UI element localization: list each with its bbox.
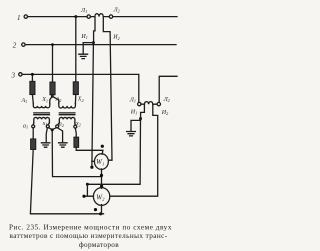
- wire a2 to common junction: [53, 128, 57, 130]
- wire VT2 a2 lead: [58, 123, 60, 125]
- svg-text:W2: W2: [96, 193, 105, 201]
- fuse Pr1 wire from line 3: [31, 74, 33, 81]
- VT1 core: [34, 113, 50, 115]
- wire x1 earth stub: [46, 128, 47, 143]
- svg-text:И1: И1: [80, 34, 87, 40]
- svg-text:Л1: Л1: [80, 8, 87, 14]
- junction on line 2 feeding fuse Pr2: [51, 43, 54, 46]
- wire VT1 a1 lead: [32, 123, 35, 125]
- VT2 core: [59, 113, 75, 115]
- voltage transformer VT2 primary winding: [59, 103, 76, 108]
- polarity dot at W2 bottom terminal: [94, 208, 97, 211]
- terminal a2: [56, 125, 59, 128]
- svg-text:х1: х1: [42, 121, 48, 127]
- fuse Pr2: [50, 82, 55, 95]
- wire W2 left stub: [84, 184, 94, 196]
- voltage transformer VT1 primary winding: [33, 103, 50, 107]
- svg-text:Х2: Х2: [77, 97, 84, 103]
- svg-text:Х1: Х1: [41, 97, 48, 103]
- svg-text:И2: И2: [161, 110, 168, 116]
- fuse Pr1: [30, 81, 35, 94]
- svg-text:2: 2: [13, 42, 17, 50]
- current transformer CT1 primary winding: [95, 14, 104, 17]
- svg-text:а1: а1: [23, 123, 28, 129]
- wire CT2 secondary I1 lead: [141, 104, 145, 117]
- svg-text:Л1: Л1: [129, 97, 136, 103]
- junction on line 3 feeding fuse Pr1: [31, 73, 34, 76]
- wire to VT1 terminal X1: [50, 96, 53, 103]
- node 2 terminal: [22, 43, 25, 46]
- wire CT1 I1 down to wattmeter W1 left: [92, 43, 94, 168]
- junction CT2 I1 / earth branch: [139, 117, 142, 120]
- junction CT1 I1 / earth branch: [92, 41, 95, 44]
- terminal L2 of CT1: [109, 15, 112, 18]
- wire earth stub of CT2 secondary: [131, 119, 141, 132]
- svg-text:а2: а2: [59, 122, 64, 128]
- svg-text:А2: А2: [55, 97, 62, 103]
- ground (VT2 secondary a2): [59, 143, 67, 147]
- terminal a1: [32, 125, 35, 128]
- junction a1 bus / W2 bottom: [99, 212, 102, 215]
- current transformer CT2 primary winding: [144, 102, 152, 105]
- wire W2 bottom stub: [101, 205, 103, 214]
- svg-text:ваттметров с помощью измерител: ваттметров с помощью измерительных транс…: [10, 232, 168, 240]
- wire stub to W1 left terminal: [92, 160, 94, 162]
- ground (VT1 secondary x1): [41, 143, 49, 147]
- wire CT2 secondary I2 lead down to W2 right: [110, 104, 158, 196]
- wire a1 to secondary fuse: [32, 128, 34, 139]
- fuse in x2 lead: [74, 137, 79, 147]
- junction x1-a2 common node: [51, 128, 54, 131]
- node 1 terminal: [24, 15, 27, 18]
- wire to VT2 terminal A2: [52, 96, 59, 103]
- voltage transformer VT1 secondary winding: [34, 117, 50, 122]
- wire x2 to secondary fuse: [74, 128, 77, 137]
- wire CT1 secondary I1 lead: [94, 17, 95, 43]
- terminal x2: [74, 125, 77, 128]
- fuse in a1 lead: [31, 139, 36, 150]
- junction on line 1 feeding fuse Pr3: [74, 15, 77, 18]
- svg-text:Рис. 235. Измерение мощности п: Рис. 235. Измерение мощности по схеме дв…: [9, 223, 172, 231]
- wire line 3 (phase 3 bus, detours down through CT2): [22, 74, 139, 102]
- voltage transformer VT2 secondary winding: [59, 117, 75, 122]
- svg-text:1: 1: [17, 14, 21, 22]
- wire line 2 (phase 2 bus): [25, 44, 176, 46]
- wire fuse Pr3 to VT2 terminal X2: [74, 95, 76, 104]
- node 3 terminal: [19, 73, 22, 76]
- svg-text:Л2: Л2: [163, 97, 170, 103]
- wire fuse Pr2 split node: [52, 95, 54, 96]
- svg-text:А1: А1: [21, 98, 28, 104]
- polarity dot at W2 left terminal: [82, 195, 85, 198]
- junction voltage bus / W1 bottom: [100, 174, 103, 177]
- terminal L2 of CT2: [157, 102, 160, 105]
- wattmeter W1: [94, 154, 108, 170]
- junction CT2 I1 wire / W2 top: [100, 185, 103, 188]
- terminal L1 of CT2: [138, 102, 141, 105]
- fuse Pr2 wire from line 2: [52, 45, 54, 82]
- terminal L1 of CT1: [87, 15, 90, 18]
- polarity dot at W1 voltage terminal: [101, 145, 104, 148]
- wire x1 to common junction: [48, 128, 51, 130]
- wire VT1 x1 lead: [48, 123, 50, 125]
- ground (CT2 secondary): [127, 132, 136, 136]
- wattmeter W2: [93, 188, 109, 206]
- wire fuse Pr1 to VT1 terminal A1: [31, 95, 34, 104]
- wire VT2 x2 lead: [74, 123, 76, 125]
- junction X1/A2 primary common: [51, 95, 54, 98]
- svg-text:И2: И2: [112, 35, 119, 41]
- wire CT2 line segment: [141, 103, 157, 105]
- svg-text:И1: И1: [130, 109, 137, 115]
- svg-text:х2: х2: [75, 121, 81, 127]
- terminal x1: [46, 125, 49, 128]
- svg-text:форматоров: форматоров: [79, 241, 119, 249]
- wire a1 to wattmeter W2 bottom (long detour): [30, 150, 103, 214]
- wire CT2 I1 down to W2: [87, 119, 140, 185]
- svg-text:Л2: Л2: [113, 7, 120, 13]
- wire x2 to wattmeter W1 top: [76, 147, 103, 154]
- wire W1 bottom to W2 top: [101, 169, 103, 188]
- junction W2 left branch / CT2 I1 wire: [86, 183, 89, 186]
- ground (CT1 secondary): [79, 54, 88, 58]
- wire earth stub of CT1 secondary: [83, 43, 93, 54]
- fuse Pr3: [73, 82, 78, 95]
- svg-text:3: 3: [11, 71, 16, 79]
- svg-text:W1: W1: [96, 158, 104, 166]
- polarity dot at W1 current terminal: [90, 166, 93, 169]
- wire line 3 continues right after CT2: [159, 76, 177, 102]
- wire common node down to voltage bus: [52, 130, 101, 177]
- fuse Pr3 wire from line 1: [75, 17, 77, 82]
- wire line 1 (phase 1 bus): [28, 16, 177, 18]
- wire a2 earth stub: [58, 128, 63, 143]
- wire CT1 secondary I2 lead down to W1 right: [103, 17, 112, 161]
